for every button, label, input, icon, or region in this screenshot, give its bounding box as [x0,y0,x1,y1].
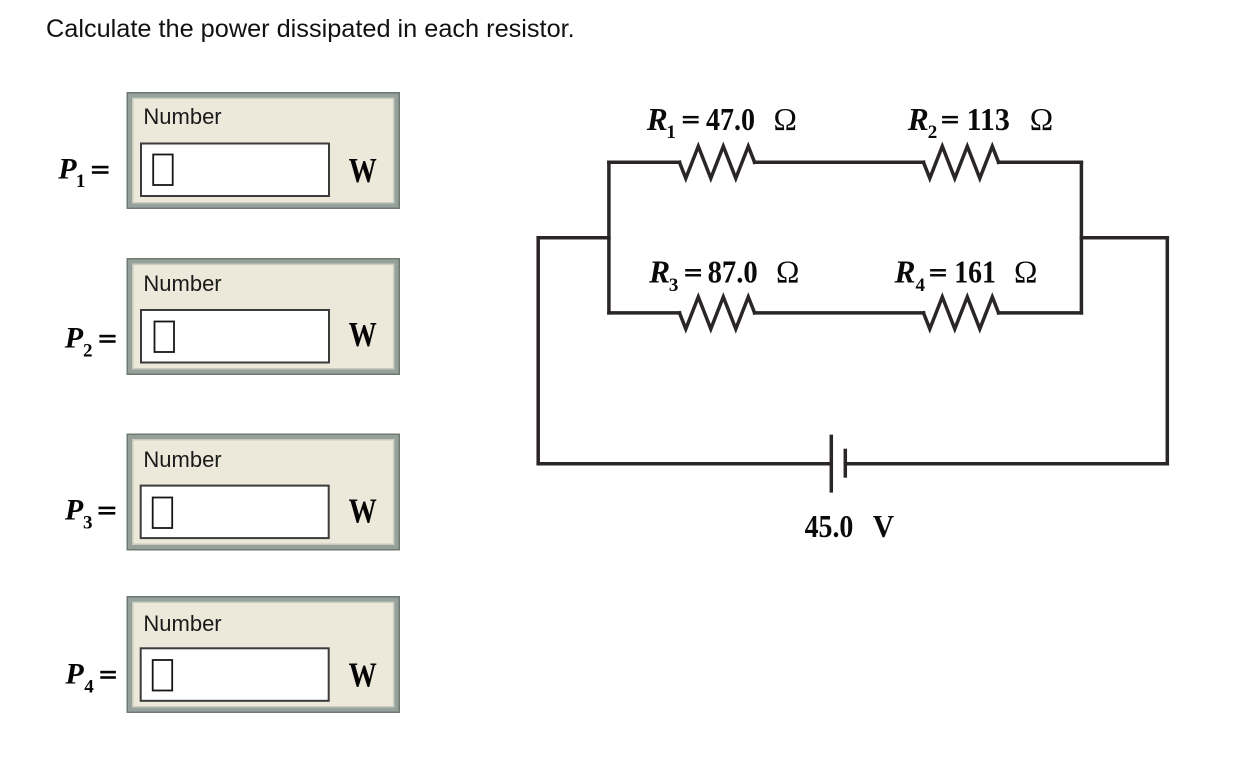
svg-text:V: V [873,509,894,544]
wire: top branch right segment [999,161,1082,165]
svg-text:Calculate the power dissipated: Calculate the power dissipated in each r… [46,15,575,43]
unit W (P1) [349,151,377,190]
input cursor rect (P3) [153,498,173,529]
unit W (P2) [349,315,377,354]
wire: bottom branch middle segment [755,311,924,315]
svg-text:3: 3 [83,513,93,534]
svg-text:1: 1 [76,171,86,192]
wire: outer-right vertical [1166,238,1170,464]
input cursor rect (P1) [153,155,173,186]
svg-text:R: R [907,102,929,137]
wire: mid-left horizontal [538,236,609,240]
svg-text:R: R [648,255,670,290]
svg-text:2: 2 [83,341,93,362]
svg-text:R: R [894,255,916,290]
input field (P2) [141,310,329,363]
svg-text:Number: Number [143,611,221,636]
svg-text:4: 4 [84,677,94,698]
input field (P1) [141,144,329,197]
wire: bottom left horizontal [538,462,830,466]
wire: outer-left vertical [536,238,540,464]
resistor R3 zigzag [680,297,755,329]
label R3 = 87.0 Ohm [648,254,799,296]
label P2 = [64,322,116,362]
svg-text:2: 2 [928,122,938,143]
resistor R4 zigzag [924,297,999,329]
svg-text:1: 1 [666,122,676,143]
svg-text:Ω: Ω [776,255,799,290]
svg-text:87.0: 87.0 [708,254,758,290]
svg-text:P: P [57,153,77,186]
resistor R2 zigzag [924,146,999,178]
svg-text:45.0: 45.0 [805,509,854,544]
wire: bottom branch left segment [609,311,680,315]
svg-text:W: W [349,655,377,694]
svg-text:R: R [646,102,668,137]
wire: inner-left vertical [607,162,611,313]
unit W (P3) [349,492,377,531]
svg-text:Number: Number [143,104,221,129]
label R2 = 113 Ohm [907,102,1053,143]
battery V1 long plate (positive) [830,435,834,493]
circuit wires [538,146,1167,492]
answer box P4 [127,596,401,713]
svg-text:4: 4 [916,275,926,296]
svg-text:161: 161 [954,256,996,290]
wire: bottom right horizontal [845,462,1167,466]
svg-text:W: W [349,315,377,354]
label P4 = [64,658,116,698]
label P3 = [64,493,115,533]
label R1 = 47.0 Ohm [646,102,797,143]
wire: mid-right horizontal [1081,236,1167,240]
svg-text:47.0: 47.0 [706,103,755,138]
answer box P1 [127,92,401,209]
battery V1 short plate (negative) [844,449,848,478]
svg-text:P: P [64,322,84,355]
input cursor rect (P4) [153,660,173,691]
input cursor rect (P2) [155,322,175,353]
label 45.0 V battery value [805,509,895,544]
wire: top branch middle segment [755,161,924,165]
label R4 = 161 Ohm [894,255,1038,296]
svg-text:P: P [64,658,84,691]
svg-text:113: 113 [967,103,1010,138]
unit W (P4) [349,655,377,694]
input field (P4) [141,648,329,701]
wire: bottom branch right segment [999,311,1082,315]
answer box P2 [127,258,401,375]
svg-text:P: P [64,493,84,526]
wire: inner-right vertical [1080,162,1084,313]
svg-text:Number: Number [143,271,221,296]
svg-text:W: W [349,151,377,190]
input field (P3) [141,486,329,538]
svg-text:Number: Number [143,447,221,472]
svg-text:3: 3 [669,275,679,296]
answer box P3 [127,434,401,551]
svg-text:Ω: Ω [1014,255,1037,290]
svg-text:Ω: Ω [774,102,797,137]
svg-text:Ω: Ω [1030,102,1053,137]
svg-text:W: W [349,492,377,531]
label P1 = [57,153,108,193]
wire: top branch left segment [609,161,680,165]
resistor R1 zigzag [680,146,755,178]
